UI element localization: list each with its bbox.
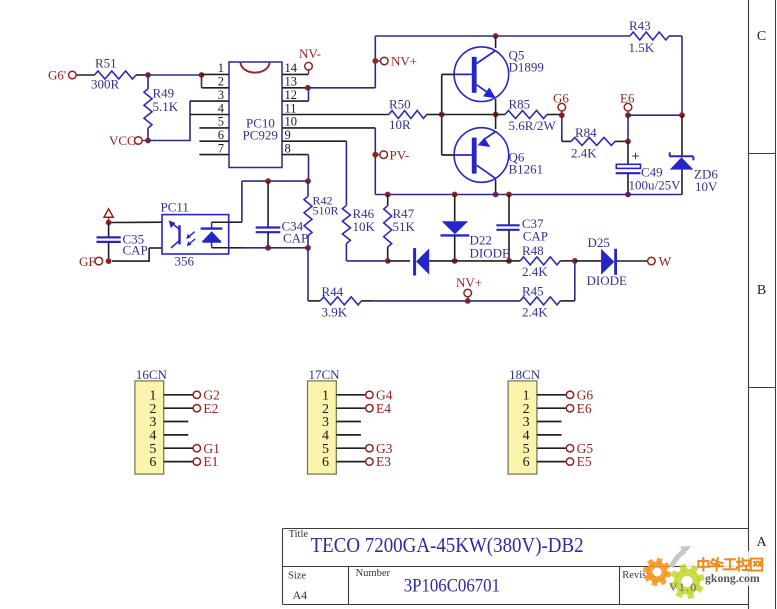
port E3 bbox=[366, 458, 373, 465]
svg-text:GF: GF bbox=[79, 254, 96, 269]
svg-text:D1899: D1899 bbox=[509, 60, 544, 75]
svg-text:R48: R48 bbox=[522, 243, 544, 258]
capacitor C34 bbox=[267, 181, 269, 227]
svg-text:14: 14 bbox=[285, 61, 298, 75]
diode D23 unlabeled bbox=[413, 248, 416, 275]
svg-text:E6: E6 bbox=[577, 401, 592, 416]
pin 7 PC10 bbox=[199, 154, 229, 156]
node Q6 collector rail bbox=[493, 192, 499, 198]
resistor R42 bbox=[307, 181, 309, 196]
wire pin9 riser to R46 bbox=[345, 141, 347, 205]
node C34 top bbox=[265, 178, 271, 184]
wire Q5 emitter to node bbox=[495, 99, 497, 115]
pin 8 PC10 bbox=[282, 154, 309, 156]
svg-text:NV+: NV+ bbox=[391, 54, 417, 69]
wire Q5 collector bbox=[495, 36, 497, 48]
wire PC11 bottom pin run bbox=[229, 247, 242, 249]
node R47 top bbox=[385, 192, 391, 198]
pin 2 PC10 bbox=[202, 87, 230, 89]
pin 12 PC10 bbox=[282, 100, 309, 102]
svg-text:2: 2 bbox=[218, 75, 224, 89]
capacitor C35 bbox=[108, 223, 110, 238]
svg-text:PC11: PC11 bbox=[161, 200, 189, 215]
pin 3 PC10 bbox=[190, 100, 229, 102]
node PV- bbox=[372, 152, 378, 158]
diode D22 bbox=[454, 195, 456, 222]
port E5 bbox=[566, 458, 573, 465]
svg-text:R84: R84 bbox=[575, 125, 597, 140]
resistor R44 bbox=[320, 297, 361, 305]
svg-text:1.5K: 1.5K bbox=[629, 40, 655, 55]
wire E6 down bbox=[627, 115, 629, 141]
node C37 top bbox=[506, 192, 512, 198]
svg-text:Title: Title bbox=[289, 529, 309, 540]
resistor R46 bbox=[342, 206, 350, 244]
node right column E6 bbox=[679, 112, 685, 118]
wire R44 run bbox=[308, 300, 320, 302]
wire pin8 riser bbox=[308, 155, 310, 182]
svg-text:A: A bbox=[756, 535, 767, 550]
watermark chinese text bbox=[698, 558, 708, 571]
svg-text:12: 12 bbox=[285, 88, 298, 102]
PC11 LED bbox=[201, 227, 223, 229]
node C34 bottom bbox=[265, 245, 271, 251]
connector 18CN bbox=[508, 381, 537, 474]
port G1 bbox=[193, 445, 200, 452]
resistor R85 bbox=[496, 114, 505, 116]
wire VCC to pin3 bbox=[148, 101, 190, 140]
resistor R48 bbox=[509, 260, 520, 262]
svg-text:B1261: B1261 bbox=[509, 162, 544, 177]
node emitter Q5 / R85 bbox=[493, 112, 499, 118]
svg-text:2.4K: 2.4K bbox=[522, 264, 548, 279]
pin 11 PC10 bbox=[282, 114, 389, 116]
svg-text:17CN: 17CN bbox=[309, 367, 341, 382]
svg-text:300R: 300R bbox=[91, 77, 120, 92]
svg-text:3: 3 bbox=[218, 88, 224, 102]
svg-text:3.9K: 3.9K bbox=[322, 305, 348, 320]
wire R43 to right column bbox=[669, 35, 682, 37]
wire Q6 emitter bbox=[495, 115, 497, 130]
svg-text:R50: R50 bbox=[389, 97, 411, 112]
wire Q6 collector bbox=[495, 180, 497, 195]
svg-text:E6: E6 bbox=[620, 91, 635, 106]
svg-text:5: 5 bbox=[218, 115, 224, 129]
wire bottom rail bbox=[375, 194, 682, 196]
frame row divider B/A bbox=[749, 387, 776, 389]
PC11 phototransistor bbox=[178, 225, 180, 244]
optocoupler PC11 bbox=[162, 215, 229, 254]
pin 9 PC10 bbox=[282, 140, 346, 142]
svg-text:A4: A4 bbox=[293, 588, 308, 602]
watermark gray arrow bbox=[671, 551, 684, 567]
node R84/C49/E6 bbox=[625, 139, 631, 145]
port NV+ bottom bbox=[467, 297, 469, 301]
resistor R84 bbox=[562, 140, 571, 142]
svg-text:CAP: CAP bbox=[283, 231, 308, 246]
svg-text:10V: 10V bbox=[695, 179, 718, 194]
svg-text:E1: E1 bbox=[203, 454, 218, 469]
port VCC bbox=[135, 137, 143, 145]
wire top rail to R43 bbox=[375, 35, 630, 37]
svg-text:E2: E2 bbox=[203, 401, 218, 416]
node pin1/pin2 tie bbox=[199, 72, 205, 78]
wire R50 line bbox=[389, 111, 427, 119]
svg-text:R51: R51 bbox=[95, 56, 117, 71]
port G5 bbox=[566, 445, 573, 452]
svg-text:NV+: NV+ bbox=[456, 275, 482, 290]
transistor Q5 D1899 NPN bbox=[454, 47, 509, 102]
port E6 node bbox=[625, 112, 631, 118]
node junction R51/R49 bbox=[145, 72, 151, 78]
connector 17CN bbox=[308, 381, 337, 474]
svg-text:3P106C06701: 3P106C06701 bbox=[404, 575, 500, 596]
wire R45 riser bbox=[574, 261, 576, 301]
svg-text:9: 9 bbox=[285, 128, 291, 142]
port NV- on pin14 bbox=[308, 70, 310, 75]
svg-text:10: 10 bbox=[285, 115, 298, 129]
svg-text:8: 8 bbox=[285, 141, 291, 155]
node R47 bottom bbox=[385, 258, 391, 264]
wire base column Q5/Q6 bbox=[441, 74, 443, 155]
frame right border bbox=[748, 0, 750, 609]
svg-text:5.6R/2W: 5.6R/2W bbox=[509, 118, 557, 133]
wire lower node run bbox=[388, 260, 410, 262]
svg-text:PC929: PC929 bbox=[243, 128, 278, 143]
svg-text:R44: R44 bbox=[322, 284, 344, 299]
svg-text:R45: R45 bbox=[522, 284, 544, 299]
node collector rail Q5 bbox=[493, 33, 499, 39]
pin 4 PC10 bbox=[190, 114, 229, 116]
svg-text:gkong.com: gkong.com bbox=[705, 571, 760, 585]
svg-text:10R: 10R bbox=[389, 117, 411, 132]
svg-text:C: C bbox=[757, 29, 766, 44]
node VCC junction bbox=[145, 138, 151, 144]
svg-text:PV-: PV- bbox=[390, 148, 410, 163]
svg-text:CAP: CAP bbox=[123, 243, 148, 258]
frame row divider C/B bbox=[749, 153, 776, 155]
node D22 top bbox=[452, 192, 458, 198]
svg-text:4: 4 bbox=[218, 101, 225, 115]
svg-text:16CN: 16CN bbox=[136, 367, 168, 382]
port G4 bbox=[366, 391, 373, 398]
diode D25 bbox=[575, 260, 601, 262]
node R48/D25/R45 bbox=[572, 258, 578, 264]
resistor R49 bbox=[147, 75, 149, 89]
svg-text:6: 6 bbox=[322, 455, 329, 470]
svg-text:5.1K: 5.1K bbox=[153, 99, 179, 114]
port G2 bbox=[193, 391, 200, 398]
svg-text:TECO 7200GA-45KW(380V)-DB2: TECO 7200GA-45KW(380V)-DB2 bbox=[311, 533, 584, 557]
wire G6 down to R84 bbox=[561, 115, 563, 141]
wire R51 junction to pin1 node bbox=[148, 74, 202, 76]
svg-text:V1.0: V1.0 bbox=[669, 580, 697, 594]
svg-text:Size: Size bbox=[288, 571, 306, 582]
node GF junction bbox=[106, 258, 112, 264]
svg-text:510R: 510R bbox=[313, 204, 339, 218]
IC notch arc bbox=[241, 62, 270, 72]
transistor Q6 B1261 PNP bbox=[454, 128, 509, 183]
port G6' bbox=[69, 71, 77, 79]
capacitor C49 electrolytic bbox=[627, 141, 629, 164]
svg-text:W: W bbox=[659, 254, 672, 269]
svg-text:E3: E3 bbox=[376, 454, 391, 469]
port G3 bbox=[366, 445, 373, 452]
title block box bbox=[283, 529, 749, 605]
svg-text:Number: Number bbox=[356, 568, 391, 579]
op-amp U1 PC10/PC929 optocoupler IC bbox=[229, 62, 282, 168]
pin 6 PC10 bbox=[199, 140, 229, 142]
svg-text:6: 6 bbox=[218, 128, 224, 142]
svg-text:R85: R85 bbox=[509, 97, 531, 112]
watermark orange gear bbox=[643, 558, 672, 587]
svg-text:VCC: VCC bbox=[109, 133, 136, 148]
pin 13 PC10 bbox=[282, 87, 308, 89]
capacitor C37 bbox=[508, 195, 510, 226]
node C37 bottom bbox=[506, 258, 512, 264]
svg-text:100u/25V: 100u/25V bbox=[629, 178, 682, 193]
svg-text:R43: R43 bbox=[629, 18, 651, 33]
svg-text:6: 6 bbox=[149, 455, 156, 470]
watermark green gear bbox=[669, 564, 704, 599]
node NV+ bottom bbox=[465, 298, 471, 304]
node C35 top bbox=[106, 220, 112, 226]
port GF bbox=[95, 257, 103, 265]
port NV+ top bbox=[375, 60, 380, 62]
connector 16CN bbox=[135, 381, 164, 474]
node pin8/R42 bbox=[305, 178, 311, 184]
power port triangle bbox=[104, 209, 113, 217]
svg-text:10K: 10K bbox=[353, 219, 376, 234]
wire G6' to R51 bbox=[76, 74, 95, 76]
node R50 to bases bbox=[439, 112, 445, 118]
svg-text:6: 6 bbox=[523, 455, 530, 470]
wire down to R44 bbox=[307, 248, 309, 301]
resistor R43 bbox=[630, 32, 669, 40]
node pin13/pin12 tie bbox=[305, 85, 311, 91]
resistor R45 bbox=[520, 297, 560, 305]
watermark text halo bbox=[686, 551, 772, 586]
svg-text:+: + bbox=[632, 150, 640, 165]
pin 14 PC10 bbox=[282, 73, 309, 75]
resistor R47 bbox=[387, 195, 389, 206]
svg-text:D25: D25 bbox=[588, 235, 610, 250]
svg-text:DIODE: DIODE bbox=[470, 246, 510, 261]
port E4 bbox=[366, 405, 373, 412]
wire pin8 node to PC11 bbox=[242, 180, 308, 182]
svg-text:51K: 51K bbox=[393, 219, 416, 234]
wire pin10 riser to PV- bbox=[374, 128, 376, 195]
port E6 bbox=[566, 405, 573, 412]
svg-text:DIODE: DIODE bbox=[587, 273, 627, 288]
svg-text:11: 11 bbox=[285, 101, 297, 115]
zener diode ZD6 bbox=[681, 115, 683, 156]
node C49 bottom bbox=[625, 192, 631, 198]
port E2 bbox=[193, 405, 200, 412]
wire pin13 to NV+ riser bbox=[308, 87, 376, 89]
node R42 bottom bbox=[305, 245, 311, 251]
pin 1 PC10 bbox=[202, 73, 230, 75]
svg-text:CAP: CAP bbox=[523, 229, 548, 244]
wire R46 to R47 node bbox=[346, 260, 387, 262]
pin 5 PC10 bbox=[199, 127, 229, 129]
port G6 node bbox=[559, 112, 565, 118]
port PV- bbox=[375, 154, 380, 156]
PC11 left pins bbox=[111, 221, 162, 223]
node NV+ top bbox=[372, 58, 378, 64]
svg-text:18CN: 18CN bbox=[509, 367, 541, 382]
port E1 bbox=[193, 458, 200, 465]
svg-text:B: B bbox=[757, 283, 766, 298]
PC11 light arrows bbox=[188, 232, 195, 238]
svg-text:G6: G6 bbox=[553, 91, 569, 106]
svg-text:NV-: NV- bbox=[299, 46, 321, 61]
wire to R45 bbox=[468, 300, 521, 302]
svg-text:1: 1 bbox=[218, 61, 224, 75]
port W bbox=[648, 257, 656, 265]
resistor R51 bbox=[95, 71, 137, 79]
svg-text:E4: E4 bbox=[376, 401, 391, 416]
svg-text:7: 7 bbox=[218, 141, 224, 155]
node D22 bottom bbox=[452, 258, 458, 264]
svg-text:2.4K: 2.4K bbox=[522, 305, 548, 320]
svg-text:2.4K: 2.4K bbox=[571, 146, 597, 161]
svg-text:356: 356 bbox=[175, 254, 195, 269]
port G6 bbox=[566, 391, 573, 398]
svg-text:E5: E5 bbox=[577, 454, 592, 469]
wire E6 to right column bbox=[628, 114, 682, 116]
svg-text:13: 13 bbox=[285, 75, 298, 89]
svg-text:G6': G6' bbox=[48, 68, 66, 83]
pin 10 PC10 bbox=[282, 127, 375, 129]
